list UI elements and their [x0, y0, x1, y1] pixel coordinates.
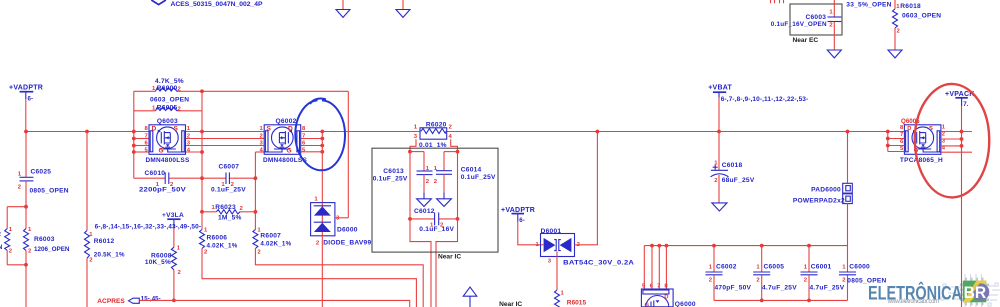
- svg-text:+VADPTR: +VADPTR: [9, 85, 43, 92]
- node +VPACK power flag: [945, 91, 975, 108]
- resistor R6018: [893, 3, 942, 34]
- diode D6001 BAT54C: [536, 228, 635, 266]
- transistor Q6003 DMN4800LSS: [145, 118, 191, 164]
- wire R6023 row leads: [202, 211, 217, 213]
- wire Q6002 right stubs to D6000 vertical: [301, 138, 323, 140]
- svg-text:0.1uF_16V: 0.1uF_16V: [419, 226, 454, 233]
- svg-text:Near EC: Near EC: [793, 37, 819, 44]
- svg-text:10K_5%: 10K_5%: [145, 259, 171, 266]
- wire R6020 pin3 jog down: [410, 139, 416, 219]
- capacitor C6002: [706, 246, 752, 301]
- wire C6013 top lead: [423, 152, 425, 171]
- wire D6000 bottom to edge: [321, 236, 323, 307]
- annotation hand-drawn red oval around Q6005: [915, 84, 989, 198]
- svg-text:C6001: C6001: [811, 264, 832, 271]
- capacitor C6012: [414, 208, 455, 233]
- svg-text:1: 1: [204, 227, 208, 233]
- node junction dot ACPRES: [172, 299, 176, 303]
- svg-text:4.7uF_25V: 4.7uF_25V: [762, 285, 797, 292]
- svg-text:4.7K_5%: 4.7K_5%: [155, 78, 184, 85]
- svg-text:15-,45-: 15-,45-: [141, 295, 161, 302]
- capacitor C6000: [839, 264, 887, 301]
- node junction dot on bus: [85, 130, 89, 134]
- svg-text:1: 1: [804, 265, 808, 271]
- wire Q6005 gate row: [941, 151, 972, 153]
- resistor R6007: [253, 227, 292, 255]
- svg-text:2: 2: [316, 240, 320, 246]
- svg-text:ACES_50315_0047N_002_4P: ACES_50315_0047N_002_4P: [171, 1, 263, 8]
- svg-text:2: 2: [714, 178, 718, 184]
- wire capacitor bank rail: [644, 245, 847, 247]
- svg-text:POWERPAD2x2: POWERPAD2x2: [793, 198, 845, 205]
- svg-text:33_5%_OPEN: 33_5%_OPEN: [846, 2, 891, 9]
- svg-text:1: 1: [89, 232, 93, 238]
- wire Q6005 right stubs: [941, 138, 962, 140]
- svg-text:3: 3: [414, 134, 418, 140]
- wire rows between Q6003 and Q6002: [186, 138, 265, 140]
- svg-text:2: 2: [257, 250, 261, 256]
- wire tap to C6014: [444, 151, 458, 153]
- svg-text:DIODE_BAV99: DIODE_BAV99: [323, 239, 371, 246]
- node junction dot VADPTR at bus: [24, 130, 28, 134]
- pad PAD6000 POWERPAD2x2: [793, 183, 852, 204]
- wire Q6005 left stubs: [888, 138, 905, 140]
- svg-text:2: 2: [804, 277, 808, 283]
- svg-text:S: S: [174, 125, 179, 132]
- wire x=88 bus down to R6012: [86, 132, 88, 231]
- svg-text:2: 2: [842, 277, 846, 283]
- ground C6013: [417, 199, 432, 207]
- resistor R6023: [212, 204, 244, 222]
- svg-text:4.02K_1%: 4.02K_1%: [260, 241, 291, 248]
- resistor (left, cut label): [0, 227, 13, 254]
- svg-text:6-: 6-: [519, 217, 525, 224]
- resistor R6008: [145, 246, 182, 277]
- svg-text:Near IC: Near IC: [438, 254, 461, 261]
- wire loop left down: [6, 207, 8, 229]
- svg-text:www.eletronicabr.com: www.eletronicabr.com: [887, 299, 940, 305]
- svg-text:6-,8-,14-,15-,16-,32-,33-,43-,: 6-,8-,14-,15-,16-,32-,33-,43-,49-,50-: [95, 223, 202, 230]
- wire D6001 pin2 to bus vertical: [575, 132, 598, 245]
- node junction dots x=202: [200, 130, 204, 134]
- node junction dot: [24, 205, 28, 209]
- node junction dots on rail: [650, 244, 654, 248]
- wire vertical x=202: [201, 91, 203, 229]
- wire C6003 to ground: [833, 22, 835, 51]
- wire VADPTR2 to D6001 pin1: [518, 222, 544, 245]
- svg-text:R6012: R6012: [94, 238, 115, 245]
- svg-text:2: 2: [204, 250, 208, 256]
- transistor Q6002 DMN4800LSS (mirrored): [260, 118, 308, 164]
- svg-text:C6002: C6002: [716, 264, 737, 271]
- wire C6012 left exit: [410, 219, 431, 307]
- node junction dot VBAT bus: [717, 130, 721, 134]
- svg-text:C6025: C6025: [31, 169, 52, 176]
- svg-text:1: 1: [177, 246, 181, 252]
- wire parallel loop top: [7, 206, 26, 208]
- svg-text:0603_OPEN: 0603_OPEN: [150, 97, 189, 104]
- svg-text:2: 2: [28, 249, 32, 255]
- wire loop bottom: [7, 264, 26, 266]
- resistor R6000: [152, 78, 184, 93]
- wire Q6005 right row1 stub: [941, 131, 972, 133]
- svg-text:PAD6000: PAD6000: [811, 186, 841, 193]
- svg-text:Q6002: Q6002: [276, 118, 297, 125]
- svg-text:R6007: R6007: [260, 233, 281, 240]
- transistor Q6000 (cut at bottom): [641, 284, 696, 307]
- svg-text:D6000: D6000: [337, 226, 358, 233]
- wire tap to C6013: [410, 151, 424, 153]
- svg-text:2: 2: [756, 277, 760, 283]
- wire vertical x=133.8 gate-drain net: [133, 91, 135, 178]
- svg-text:0805_OPEN: 0805_OPEN: [30, 188, 69, 195]
- svg-text:6-,7-,8-,9-,10-,11-,12-,22-,53: 6-,7-,8-,9-,10-,11-,12-,22-,53-: [721, 96, 809, 103]
- svg-text:R6000: R6000: [157, 85, 178, 92]
- svg-text:Near IC: Near IC: [499, 301, 522, 307]
- ground symbol 1: [336, 10, 350, 18]
- svg-text:2200pF_50V: 2200pF_50V: [139, 187, 186, 194]
- svg-text:5: 5: [302, 147, 306, 153]
- wire Q6000 pin verticals: [643, 246, 645, 289]
- node junction dots bottom rail: [760, 299, 764, 303]
- wire loop left bottom: [6, 250, 8, 264]
- node junction dots x=322.3: [320, 130, 324, 134]
- wire C6012 right exit: [436, 219, 458, 307]
- svg-text:1M_5%: 1M_5%: [218, 215, 242, 222]
- wire Q6003 gate stub: [186, 151, 203, 153]
- svg-text:+VBAT: +VBAT: [708, 84, 732, 91]
- wire C6014 top lead: [443, 152, 445, 171]
- svg-text:C6000: C6000: [849, 264, 870, 271]
- node +VADPTR power flag (second): [501, 207, 535, 224]
- node off-page connector chevron: [151, 0, 166, 5]
- svg-text:0.1uF_16V_OPEN: 0.1uF_16V_OPEN: [771, 21, 827, 28]
- node Near IC group box: [372, 148, 498, 252]
- svg-text:DMN4800LSS: DMN4800LSS: [263, 157, 307, 164]
- node up-arrow power symbol: [463, 287, 477, 307]
- svg-text:C6005: C6005: [764, 264, 785, 271]
- capacitor C6018 polarized: [711, 160, 755, 184]
- wire ground stub 1: [342, 0, 344, 10]
- capacitor C6005: [753, 246, 797, 301]
- svg-text:G: G: [645, 302, 650, 307]
- wire D6000 pin3 to x=348 vertical: [335, 217, 348, 219]
- svg-text:2: 2: [89, 258, 93, 264]
- svg-text:2: 2: [240, 206, 244, 212]
- svg-text:2: 2: [178, 107, 182, 113]
- node junction dot PAD bus: [846, 130, 850, 134]
- wire VBAT to bus and C6018: [718, 98, 720, 171]
- svg-text:C6003: C6003: [806, 14, 827, 21]
- node ACPRES net label: [97, 295, 161, 305]
- annotation hand-drawn blue circle around Q6002: [295, 99, 345, 171]
- svg-text:1: 1: [756, 265, 760, 271]
- svg-text:2: 2: [0, 231, 2, 238]
- watermark ELETRONICA BR: [868, 274, 1000, 307]
- svg-text:2: 2: [178, 270, 182, 276]
- svg-text:S: S: [267, 125, 272, 132]
- svg-text:0.1uF_25V: 0.1uF_25V: [211, 187, 246, 194]
- node +VADPTR power flag top-left: [9, 85, 43, 103]
- svg-text:6: 6: [900, 139, 904, 145]
- svg-text:C6012: C6012: [414, 208, 435, 215]
- node junction dots x=133.8: [132, 130, 136, 134]
- wire D6000 top vertical: [321, 132, 323, 204]
- resistor R6012: [85, 231, 125, 264]
- svg-text:R6023: R6023: [215, 204, 236, 211]
- svg-text:8: 8: [900, 125, 904, 131]
- wire R6007 down and right to near-IC: [255, 249, 423, 307]
- wire R6018 to ground: [894, 28, 896, 50]
- capacitor C6014: [434, 166, 496, 185]
- wire C6014 bottom lead: [443, 174, 445, 192]
- wire PAD6000 down to cap rail: [847, 204, 849, 272]
- wire R6008 to ACPRES rail: [173, 270, 175, 301]
- wire VADPTR flag to bus: [25, 99, 27, 132]
- svg-text:R6003: R6003: [34, 236, 55, 243]
- resistor R6005: [150, 97, 189, 113]
- svg-text:0603_OPEN: 0603_OPEN: [902, 13, 941, 20]
- capacitor C6001: [801, 246, 845, 301]
- svg-text:7: 7: [900, 132, 904, 138]
- wire Q6005 left vertical: [887, 132, 889, 152]
- svg-text:1: 1: [9, 227, 13, 233]
- ground C6018: [712, 203, 727, 211]
- wire ground stub 2: [402, 0, 404, 10]
- wire +VPACK vertical: [961, 106, 963, 307]
- node junction dot: [200, 89, 204, 93]
- wire PAD6000 from bus: [847, 132, 849, 184]
- node cut-off red marks top: [771, 0, 784, 3]
- wire R6012 to bottom: [86, 258, 88, 307]
- svg-text:R6006: R6006: [207, 234, 228, 241]
- capacitor C6010: [139, 170, 186, 194]
- wire C6013 bottom lead: [423, 175, 425, 193]
- svg-text:G: G: [159, 148, 164, 155]
- svg-text:Q6000: Q6000: [675, 301, 696, 307]
- svg-text:ACPRES: ACPRES: [97, 298, 125, 305]
- transistor Q6005 TPCA8065_H: [900, 118, 946, 164]
- ground C6003: [827, 50, 841, 58]
- svg-text:1: 1: [18, 172, 22, 178]
- wire R6000 row to x=348: [178, 90, 348, 92]
- svg-text:G: G: [287, 148, 292, 155]
- svg-text:D: D: [907, 126, 911, 132]
- svg-text:N: N: [0, 244, 3, 251]
- svg-text:+VADPTR: +VADPTR: [501, 207, 535, 214]
- resistor R6006: [200, 227, 238, 255]
- wire R6000 row top y=91.3 left lead: [134, 90, 156, 92]
- node junction dots C6012 row: [408, 217, 412, 221]
- svg-text:1: 1: [829, 10, 833, 16]
- svg-text:0.1uF_25V: 0.1uF_25V: [373, 175, 408, 182]
- wire main bus seg4 R6020 to Q6005: [447, 131, 905, 133]
- wire capacitor bank bottom rail: [714, 299, 848, 301]
- svg-text:2: 2: [942, 132, 946, 138]
- wire C6012 row: [410, 218, 435, 220]
- svg-text:2: 2: [9, 249, 13, 255]
- svg-text:2: 2: [18, 185, 22, 191]
- svg-text:DMN4800LSS: DMN4800LSS: [146, 157, 190, 164]
- capacitor C6013: [373, 166, 433, 185]
- svg-text:4: 4: [449, 134, 453, 140]
- wire Q6002 gate vertical x=255.4: [254, 152, 256, 230]
- diode D6000 BAV99: [311, 196, 372, 246]
- svg-text:R6018: R6018: [900, 3, 921, 10]
- resistor R6003: [24, 227, 70, 254]
- svg-text:BR: BR: [964, 283, 987, 302]
- wire main bus seg2 between Q6003 and Q6002: [186, 131, 265, 133]
- svg-text:D: D: [664, 294, 668, 300]
- svg-text:C6018: C6018: [722, 162, 743, 169]
- svg-text:1: 1: [414, 124, 418, 130]
- capacitor C6003: [771, 10, 842, 29]
- node junction dots cap taps: [408, 150, 412, 154]
- svg-text:C6013: C6013: [383, 168, 404, 175]
- node junction dot: [24, 263, 28, 267]
- node Near EC group box: [790, 4, 842, 35]
- wire R6020 pin4 jog down: [451, 139, 458, 219]
- svg-text:1206_OPEN: 1206_OPEN: [34, 246, 70, 253]
- svg-text:1: 1: [314, 196, 318, 202]
- svg-text:1: 1: [709, 265, 713, 271]
- svg-text:2: 2: [426, 179, 430, 185]
- svg-text:C6014: C6014: [461, 167, 482, 174]
- svg-text:1: 1: [842, 265, 846, 271]
- wire C6010/C6007 row y=178.2: [134, 177, 165, 179]
- wire x=26 bus down to C6025: [25, 132, 27, 178]
- wire R6003 to bottom: [25, 250, 27, 307]
- resistor R6020 current shunt: [414, 122, 453, 150]
- svg-text:68uF_25V: 68uF_25V: [722, 177, 755, 184]
- node +V3LA power flag: [162, 212, 184, 228]
- capacitor C6025: [18, 169, 69, 195]
- svg-text:7.: 7.: [963, 101, 968, 108]
- svg-text:D: D: [288, 125, 293, 132]
- wire Q6003 left stubs: [134, 138, 149, 140]
- wire main bus seg3 Q6002 to R6020: [301, 131, 420, 133]
- svg-text:4.02K_1%: 4.02K_1%: [207, 242, 238, 249]
- svg-text:Q6003: Q6003: [157, 118, 178, 125]
- svg-text:TPCA8065_H: TPCA8065_H: [900, 157, 943, 164]
- svg-text:3: 3: [548, 258, 552, 264]
- svg-text:C6010: C6010: [145, 170, 166, 177]
- wire D6001 pin3 down: [556, 252, 558, 291]
- wire x=348 vertical up to R6000 row: [347, 91, 349, 218]
- svg-text:R6005: R6005: [157, 105, 178, 112]
- svg-text:2: 2: [709, 277, 713, 283]
- wire ACPRES rail: [140, 300, 410, 307]
- svg-text:20.5K_1%: 20.5K_1%: [94, 252, 125, 259]
- node junction dot D6001 bus: [596, 130, 600, 134]
- wire V3LA flag to R6008: [173, 228, 175, 247]
- node +VBAT power flag: [708, 84, 808, 103]
- ground symbol 2: [396, 10, 410, 18]
- node junction dots x=255.4: [254, 176, 258, 180]
- svg-text:1: 1: [28, 227, 32, 233]
- svg-text:R6015: R6015: [567, 300, 587, 307]
- wire C6003 top: [833, 0, 835, 17]
- ground C6014: [437, 199, 452, 207]
- node junction dots Q6005 left: [886, 130, 890, 134]
- svg-text:470pF_50V: 470pF_50V: [715, 285, 752, 292]
- wire main bus +VADPTR y=131.5 seg1: [26, 131, 149, 133]
- svg-text:BAT54C_30V_0.2A: BAT54C_30V_0.2A: [563, 260, 634, 267]
- ground R6018: [888, 50, 902, 58]
- wire R6018 top: [894, 0, 896, 9]
- wire R6005 row left lead: [134, 110, 156, 112]
- wire Q6002 gate stub: [255, 151, 264, 153]
- svg-text:1: 1: [561, 291, 565, 297]
- svg-text:S: S: [929, 126, 933, 132]
- wire C6025 to R6003 node: [25, 181, 27, 229]
- svg-text:2: 2: [829, 23, 833, 29]
- svg-text:4.7uF_25V: 4.7uF_25V: [810, 285, 845, 292]
- wire R6005 row right lead: [178, 110, 202, 112]
- svg-text:2: 2: [449, 124, 453, 130]
- svg-text:2: 2: [434, 179, 438, 185]
- svg-text:0.1uF_25V: 0.1uF_25V: [461, 174, 496, 181]
- capacitor C6007: [211, 164, 246, 194]
- svg-text:R6020: R6020: [426, 122, 447, 129]
- svg-text:+V3LA: +V3LA: [162, 212, 184, 219]
- node junction dots Q6005 right: [960, 130, 964, 134]
- wire R6006 down and right to near-IC: [202, 249, 416, 307]
- resistor R6015: [555, 290, 587, 307]
- wire C6018 to ground: [718, 175, 720, 203]
- svg-text:1: 1: [942, 125, 946, 131]
- svg-text:D6001: D6001: [541, 228, 562, 235]
- svg-text:6-: 6-: [28, 96, 34, 103]
- svg-text:C6007: C6007: [219, 164, 240, 171]
- svg-text:2: 2: [897, 28, 901, 34]
- svg-text:D: D: [152, 125, 157, 132]
